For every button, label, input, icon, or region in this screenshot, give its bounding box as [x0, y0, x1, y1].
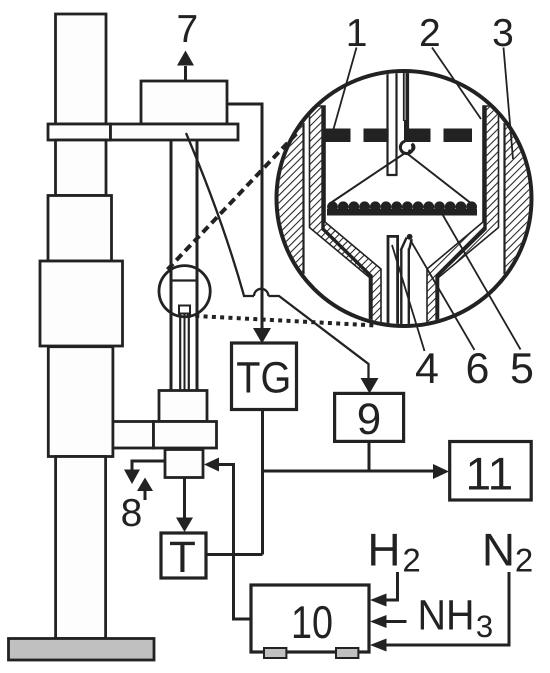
svg-text:2: 2	[419, 12, 441, 55]
svg-text:2: 2	[515, 542, 533, 579]
svg-text:9: 9	[357, 395, 381, 444]
svg-text:1: 1	[346, 12, 368, 55]
svg-text:11: 11	[466, 448, 514, 500]
svg-text:T: T	[169, 533, 196, 582]
svg-text:6: 6	[466, 345, 490, 393]
svg-text:N: N	[482, 524, 515, 576]
svg-text:8: 8	[121, 492, 143, 535]
svg-text:2: 2	[402, 542, 420, 579]
svg-text:3: 3	[492, 12, 514, 55]
svg-text:7: 7	[176, 8, 198, 51]
svg-text:4: 4	[415, 345, 439, 393]
svg-text:3: 3	[476, 609, 493, 644]
svg-text:TG: TG	[236, 353, 291, 402]
svg-text:NH: NH	[418, 593, 475, 640]
svg-text:H: H	[367, 524, 400, 576]
svg-text:5: 5	[510, 345, 534, 393]
svg-text:10: 10	[291, 596, 333, 648]
